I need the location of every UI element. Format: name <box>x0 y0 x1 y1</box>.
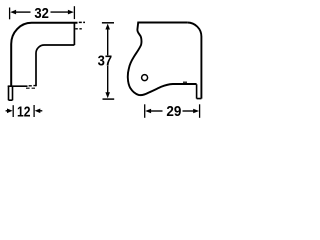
dimension 37 (left of right figure) <box>102 22 114 24</box>
lip vertical at top right <box>73 23 75 45</box>
dashed board surface line under top edge <box>75 28 82 30</box>
foot tab bottom left <box>9 86 13 100</box>
bottom right foot tab <box>197 84 202 98</box>
dimension 12 (bottom left) <box>12 105 14 117</box>
top right rounded corner and right edge <box>187 23 201 99</box>
bottom line break dashes <box>29 85 36 87</box>
top edge break dashes <box>79 21 85 23</box>
dimension 29 (bottom right) <box>144 104 146 118</box>
outline <box>128 23 197 96</box>
svg-text:12: 12 <box>17 105 31 121</box>
svg-text:37: 37 <box>98 53 113 69</box>
svg-text:29: 29 <box>166 104 181 120</box>
outer contour: top edge, rounded corner, left edge <box>11 23 77 87</box>
dimension 32 (top) <box>9 8 11 20</box>
inner contour: horizontal, small arc, vertical <box>36 45 74 86</box>
bottom line solid part <box>8 85 28 87</box>
screw hole <box>142 75 148 81</box>
serration dash left of foot <box>183 81 187 83</box>
svg-text:32: 32 <box>34 6 49 22</box>
